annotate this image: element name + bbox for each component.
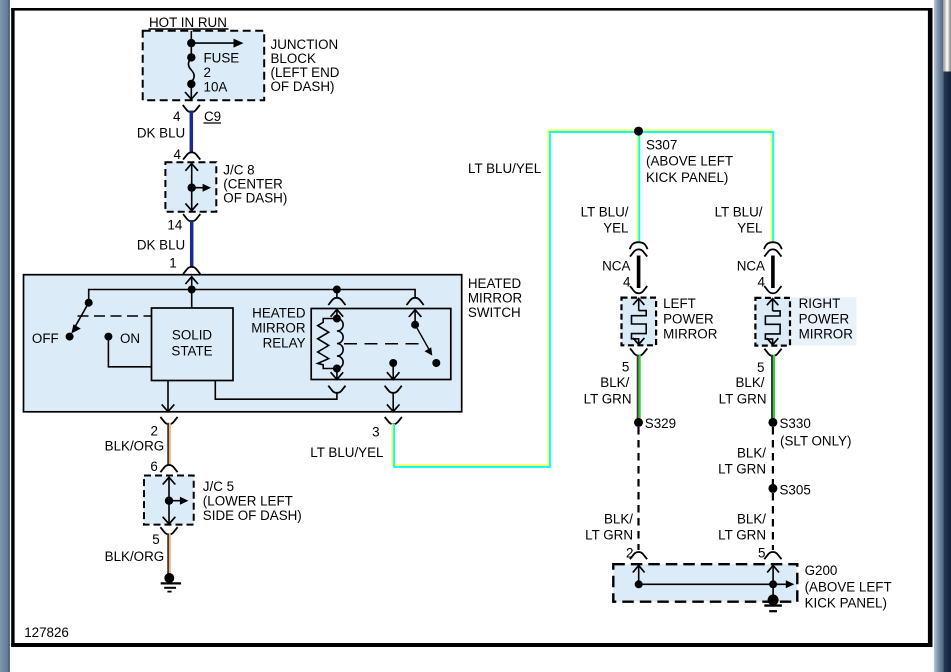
svg-text:LT GRN: LT GRN [718,462,766,477]
svg-text:2: 2 [204,65,211,80]
right power mirror box [755,298,790,346]
label SOLID STATE [171,328,212,359]
splice S307 node [634,127,643,136]
svg-text:5: 5 [622,360,629,375]
label G200 (ABOVE LEFT KICK PANEL) [805,563,892,610]
svg-text:NCA: NCA [602,259,630,274]
ground block G200 box [613,564,797,602]
svg-text:LT GRN: LT GRN [585,528,633,543]
svg-text:BLK/ORG: BLK/ORG [105,549,165,564]
wire BLK/LT GRN right [771,355,775,419]
svg-text:G200: G200 [805,563,838,578]
J/C 8 internal bus with arrows [185,164,211,211]
switch blade OFF position [66,299,93,341]
fuse F2 10A element [187,53,195,88]
label HEATED MIRROR RELAY [251,305,306,350]
svg-text:5: 5 [757,360,764,375]
relay coil top arrow [331,310,344,323]
svg-text:LT GRN: LT GRN [719,391,767,406]
J/C 5 internal bus with arrows [163,477,189,524]
wire solid state output pin 2 with arrow [162,381,175,412]
svg-text:1: 1 [169,256,176,271]
svg-text:4: 4 [173,147,181,162]
svg-text:(LEFT END: (LEFT END [271,65,340,80]
connector cup above right mirror [764,286,781,293]
wire DK BLU circuit [190,220,194,267]
svg-text:LT BLU/: LT BLU/ [581,205,629,220]
dashed actuator link to solid state [78,315,152,317]
connector dome left mirror harness [630,242,648,249]
svg-text:14: 14 [167,218,182,233]
svg-text:S305: S305 [780,482,811,497]
solid state module box [152,308,234,381]
svg-text:BLK/: BLK/ [737,446,766,461]
junction block box [143,31,265,101]
svg-text:RELAY: RELAY [263,335,306,350]
label S307 (ABOVE LEFT KICK PANEL) [646,137,733,184]
svg-text:MIRROR: MIRROR [251,320,306,335]
wire NCA right [771,256,775,289]
wire dashed left S329 to G200 [637,427,639,550]
svg-text:BLK/: BLK/ [604,512,633,527]
relay switch blade [411,321,440,367]
svg-text:OF DASH): OF DASH) [271,79,335,94]
label BLK/LT GRN right [719,375,767,406]
svg-text:LEFT: LEFT [663,296,696,311]
svg-text:MIRROR: MIRROR [468,291,523,306]
svg-text:(LOWER LEFT: (LOWER LEFT [203,493,293,508]
relay switch top arrow [409,310,422,325]
label LT BLU/YEL left branch [581,205,629,236]
svg-text:6: 6 [150,459,157,474]
ground symbol G-left [161,573,181,592]
svg-text:BLK/ORG: BLK/ORG [105,439,165,454]
svg-text:BLK/: BLK/ [737,512,766,527]
connector hat into switch box [183,267,200,274]
svg-text:4: 4 [173,109,181,124]
svg-text:OF DASH): OF DASH) [223,191,287,206]
connector hat into G200 left [630,552,647,559]
relay output tap node [387,359,400,379]
junction connector J/C 5 box [144,476,194,525]
label HOT IN RUN [149,15,229,30]
svg-text:KICK PANEL): KICK PANEL) [805,596,887,611]
svg-text:SIDE OF DASH): SIDE OF DASH) [203,508,302,523]
wire BLK/ORG to ground [167,534,171,576]
connector cup below left mirror [630,348,647,355]
svg-text:2: 2 [151,424,158,439]
dashed relay actuator link [344,343,423,345]
svg-text:JUNCTION: JUNCTION [271,37,339,52]
svg-text:ON: ON [120,331,140,346]
node bus-input junction [188,286,196,294]
label NCA right [737,259,766,290]
wire BLK/LT GRN left [637,355,641,420]
heated mirror switch box [24,275,462,412]
svg-text:DK BLU: DK BLU [137,237,185,252]
connector hat into relay switch [407,298,424,305]
wire feed inside junction block [190,31,192,58]
svg-text:YEL: YEL [737,221,762,236]
svg-text:S330: S330 [780,416,811,431]
svg-text:BLOCK: BLOCK [271,51,316,66]
svg-text:(SLT ONLY): (SLT ONLY) [780,433,851,448]
connector hat into G200 right [764,552,781,559]
svg-text:LT GRN: LT GRN [584,391,632,406]
svg-text:(ABOVE LEFT: (ABOVE LEFT [646,154,733,169]
connector cup below J/C 5 [160,527,177,534]
wire DK BLU circuit [190,111,194,154]
connector cup below J/C 8 [183,214,200,221]
label RIGHT POWER MIRROR [799,296,854,341]
right mirror heater element [765,299,780,345]
connector cup above left mirror [630,286,647,293]
label BLK/LT GRN lower right [718,512,766,543]
relay coil bottom node and arrow out [331,365,344,380]
label JUNCTION BLOCK (LEFT END OF DASH) [271,37,340,94]
svg-text:BLK/: BLK/ [600,375,629,390]
connector cup below relay coil [328,386,345,393]
svg-text:LT BLU/YEL: LT BLU/YEL [310,445,383,460]
svg-text:LT BLU/: LT BLU/ [715,205,763,220]
label J/C 8 (CENTER OF DASH) [223,162,287,205]
svg-text:J/C 8: J/C 8 [223,162,254,177]
left power mirror box [622,298,657,346]
svg-text:KICK PANEL): KICK PANEL) [646,170,728,185]
ground symbol G200 [764,584,782,611]
svg-text:127826: 127826 [24,625,69,640]
heated mirror relay box [311,309,451,380]
label LEFT POWER MIRROR [663,296,718,341]
svg-text:HEATED: HEATED [468,276,522,291]
switch input arrow pin 1 [185,277,198,308]
svg-text:SWITCH: SWITCH [468,305,521,320]
svg-text:BLK/: BLK/ [735,375,764,390]
node bus-relay junction [333,286,341,294]
connector cup below switch pin 2 [160,417,177,424]
connector hat right mirror pigtail [764,249,781,256]
svg-text:(ABOVE LEFT: (ABOVE LEFT [805,579,892,594]
highlight behind right mirror label [791,297,857,345]
svg-text:RIGHT: RIGHT [799,296,841,311]
label BLK/LT GRN lower left [585,512,633,543]
svg-text:POWER: POWER [799,311,850,326]
svg-text:5: 5 [152,532,159,547]
output arrow to other circuits [191,39,243,48]
wire BLK/ORG [167,423,171,466]
wire dashed right S330 to S305 [772,427,774,484]
svg-text:DK BLU: DK BLU [137,126,185,141]
connector cup below relay switch [385,386,402,393]
connector cup below switch pin 3 [385,417,402,424]
node splice at fuse feed [187,39,195,47]
relay coil winding arcs [337,319,343,369]
internal supply bus wire [89,290,415,303]
svg-text:NCA: NCA [737,259,765,274]
svg-text:OFF: OFF [32,331,59,346]
wire NCA left [637,256,641,289]
svg-text:YEL: YEL [603,221,628,236]
wire LT BLU/YEL yellow tracer [392,130,771,465]
svg-text:FUSE: FUSE [204,51,240,66]
svg-text:10A: 10A [204,80,228,95]
label LT BLU/YEL right branch [715,205,763,236]
G200 internal bus [633,565,795,588]
connector dome right mirror harness [764,242,782,249]
ON contact and wire [104,333,151,367]
svg-text:MIRROR: MIRROR [799,327,854,342]
svg-text:S307: S307 [646,137,677,152]
label BLK/LT GRN mid right [718,446,766,477]
splice S330 [768,418,777,427]
wire relay coil return to solid state [215,381,337,400]
wire LT BLU/YEL cyan body [394,132,773,467]
label S330 (SLT ONLY) [780,416,852,448]
junction connector J/C 8 box [165,162,216,212]
connector cup below right mirror [764,349,781,356]
svg-text:3: 3 [372,425,379,440]
connector hat into J/C 5 [160,465,177,472]
splice S329 [634,418,643,427]
svg-text:HOT IN RUN: HOT IN RUN [149,15,227,30]
svg-text:MIRROR: MIRROR [663,327,718,342]
wire dashed right S305 to G200 [772,493,774,550]
svg-text:POWER: POWER [663,311,714,326]
wire fuse output with arrow [185,84,198,99]
splice S305 [768,484,777,493]
label HEATED MIRROR SWITCH [468,276,523,320]
wire relay output to pin 3 with arrow [387,392,400,412]
wire bus to relay coil [336,290,338,298]
label NCA left [602,259,631,290]
connector hat into J/C 8 [183,152,200,159]
svg-text:J/C 5: J/C 5 [203,479,234,494]
svg-text:LT GRN: LT GRN [718,528,766,543]
svg-text:HEATED: HEATED [252,305,306,320]
label BLK/LT GRN left [584,375,632,406]
connector C9 cup [183,105,200,112]
svg-text:S329: S329 [645,416,676,431]
label FUSE 2 10A [204,51,240,95]
label C9 [204,109,222,124]
connector hat into relay coil [328,298,345,305]
svg-text:LT BLU/YEL: LT BLU/YEL [468,161,541,176]
svg-text:STATE: STATE [171,344,212,359]
connector hat left mirror pigtail [630,249,647,256]
svg-text:C9: C9 [204,109,221,124]
svg-text:SOLID: SOLID [172,328,213,343]
svg-text:(CENTER: (CENTER [223,176,283,191]
relay coil resistor zigzag [318,319,337,369]
label J/C 5 (LOWER LEFT SIDE OF DASH) [203,479,302,523]
left mirror heater element [632,298,647,344]
